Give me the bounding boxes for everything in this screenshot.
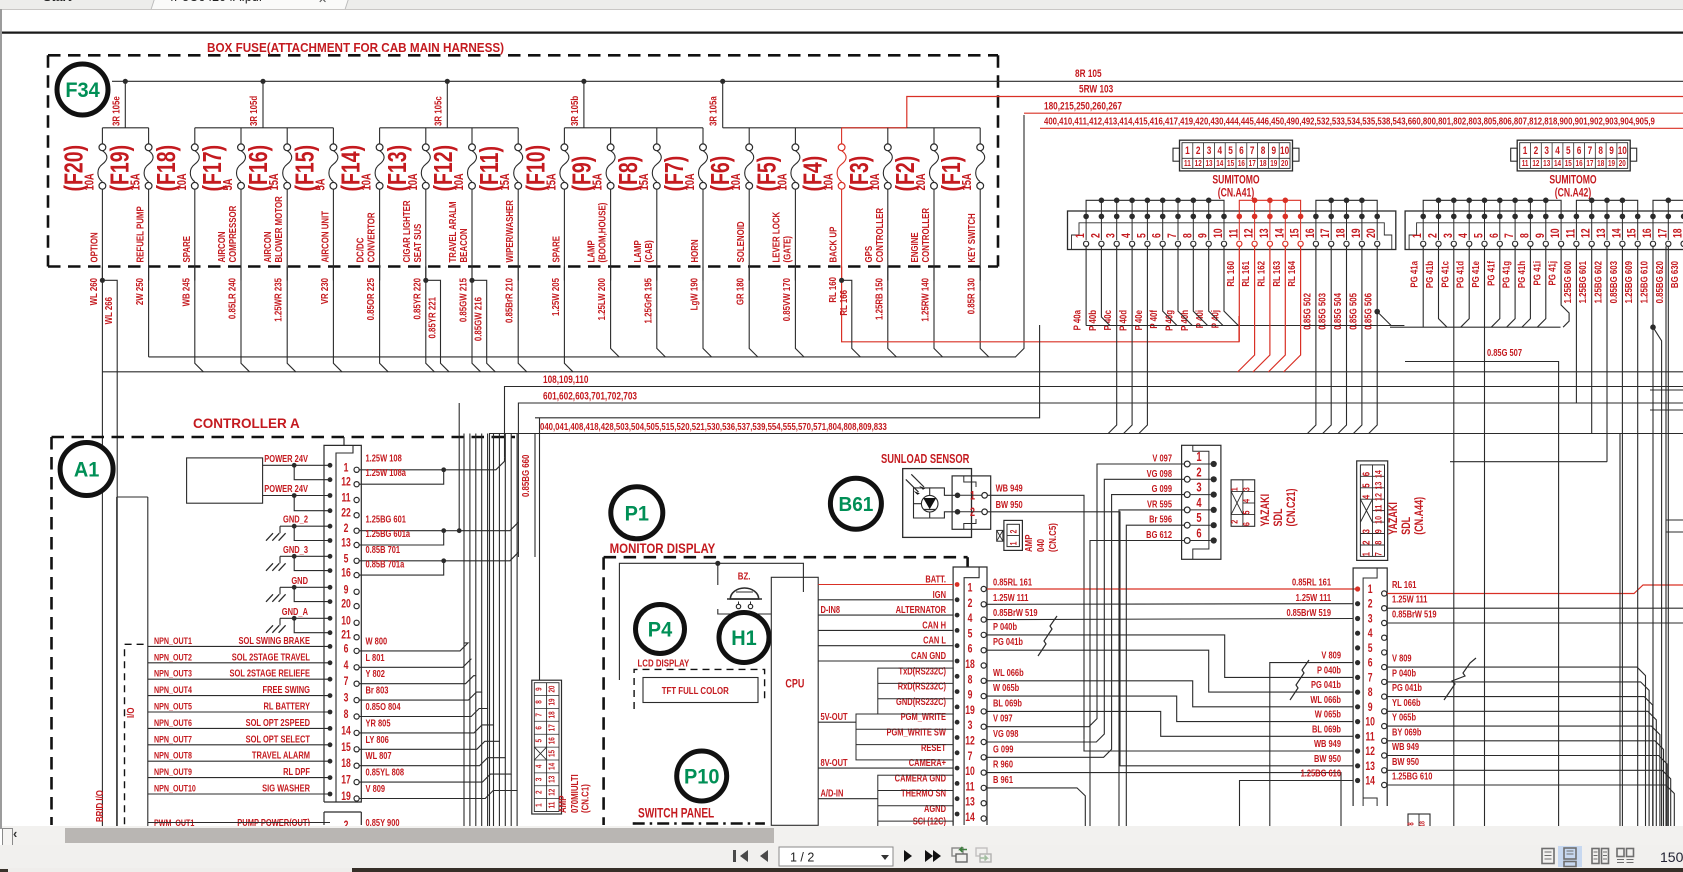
6pin pin 4 VR 595 bbox=[1184, 497, 1217, 513]
svg-text:1.25BG 610: 1.25BG 610 bbox=[1638, 261, 1649, 303]
svg-text:3: 3 bbox=[1544, 145, 1549, 157]
svg-text:14: 14 bbox=[1611, 228, 1623, 238]
svg-text:20: 20 bbox=[341, 599, 351, 611]
svg-text:13: 13 bbox=[341, 537, 351, 549]
svg-text:I/O: I/O bbox=[125, 708, 136, 718]
svg-text:13: 13 bbox=[1543, 158, 1550, 168]
6pin pin 5 Br 596 bbox=[1184, 512, 1217, 528]
controller pin 9 bbox=[328, 584, 360, 596]
svg-text:0.85YR 220: 0.85YR 220 bbox=[411, 278, 422, 320]
svg-text:10: 10 bbox=[1213, 228, 1225, 238]
CN.A41 pin 13 bbox=[1259, 214, 1273, 247]
wire Y 065b right bbox=[1387, 726, 1660, 830]
svg-text:0.85B 701: 0.85B 701 bbox=[366, 544, 401, 555]
svg-text:1.25RW 140: 1.25RW 140 bbox=[919, 278, 930, 322]
svg-text:1: 1 bbox=[1009, 541, 1019, 545]
svg-text:5A: 5A bbox=[222, 179, 236, 191]
14pin pin 1 bbox=[1355, 584, 1387, 596]
wire P 40i bbox=[1209, 246, 1223, 325]
6pin pin 6 BG 612 bbox=[1184, 527, 1217, 543]
connector B61 bbox=[830, 478, 881, 529]
wire right stub 3 bbox=[1666, 519, 1683, 521]
CN.A42 pin 8 bbox=[1519, 214, 1533, 247]
twisted pair marker 2 bbox=[1290, 660, 1309, 700]
svg-text:17: 17 bbox=[1320, 228, 1332, 238]
wire WB 949 right bbox=[1387, 756, 1667, 831]
14pin pin 11 bbox=[1355, 731, 1387, 743]
svg-text:6: 6 bbox=[1577, 145, 1582, 157]
svg-text:21: 21 bbox=[341, 630, 351, 642]
svg-text:1: 1 bbox=[1185, 145, 1190, 157]
svg-text:1.25W 108: 1.25W 108 bbox=[366, 452, 402, 463]
svg-text:PWM_OUT1: PWM_OUT1 bbox=[154, 817, 195, 826]
svg-text:400,410,411,412,413,414,415,41: 400,410,411,412,413,414,415,416,417,419,… bbox=[1044, 116, 1655, 127]
svg-text:P4: P4 bbox=[648, 618, 673, 642]
svg-text:SPARE: SPARE bbox=[550, 236, 561, 263]
CN.A42 pin 16 bbox=[1642, 214, 1656, 247]
wire L 801 bbox=[359, 434, 471, 668]
page top border bbox=[2, 31, 1683, 33]
svg-text:0.85LR 240: 0.85LR 240 bbox=[226, 278, 237, 319]
wire V 809 bbox=[1270, 663, 1353, 826]
svg-text:NPN_OUT5: NPN_OUT5 bbox=[154, 700, 192, 711]
wire 1.25W 108 bbox=[359, 469, 444, 471]
left window border bbox=[0, 9, 2, 829]
wire 0.85GW 215 bbox=[472, 267, 481, 372]
CN.A41 pin 16 bbox=[1305, 214, 1319, 247]
CN.A41 pin 11 bbox=[1228, 214, 1242, 247]
svg-text:CPU: CPU bbox=[785, 678, 804, 692]
svg-text:10: 10 bbox=[341, 615, 351, 627]
svg-text:15A: 15A bbox=[591, 173, 605, 190]
svg-text:11: 11 bbox=[546, 802, 556, 809]
svg-text:1.25BG 601a: 1.25BG 601a bbox=[366, 528, 411, 539]
svg-text:0.85BG 603: 0.85BG 603 bbox=[1608, 261, 1619, 303]
svg-text:040: 040 bbox=[1035, 539, 1046, 552]
connector P1 bbox=[611, 487, 663, 539]
svg-text:17: 17 bbox=[341, 775, 351, 787]
wire P 40g bbox=[1178, 246, 1192, 325]
wire 0.85G 507 line bbox=[1405, 362, 1559, 831]
wire right stub 2 bbox=[1650, 409, 1683, 411]
svg-text:WL 066b: WL 066b bbox=[1310, 694, 1341, 705]
svg-text:1: 1 bbox=[968, 582, 973, 594]
svg-text:2: 2 bbox=[533, 790, 543, 794]
svg-text:8: 8 bbox=[1372, 540, 1383, 544]
svg-text:2: 2 bbox=[1009, 529, 1019, 533]
svg-text:4: 4 bbox=[968, 613, 973, 625]
svg-text:SUMITOMO: SUMITOMO bbox=[1212, 174, 1259, 186]
svg-text:LY 806: LY 806 bbox=[366, 734, 389, 745]
wire red feed to fuse F4 bbox=[842, 127, 907, 129]
svg-text:0.85OR 225: 0.85OR 225 bbox=[365, 278, 376, 320]
wire 0.85RL 161 (red row) bbox=[987, 588, 1358, 590]
svg-text:AIRCON UNIT: AIRCON UNIT bbox=[319, 211, 330, 263]
svg-text:5RW 103: 5RW 103 bbox=[1079, 83, 1114, 95]
svg-text:10: 10 bbox=[1550, 228, 1562, 238]
svg-text:10A: 10A bbox=[407, 173, 421, 190]
svg-text:22: 22 bbox=[341, 508, 351, 520]
ground bbox=[279, 618, 281, 625]
wire rail A41 11-15 bbox=[1239, 198, 1300, 215]
svg-text:9: 9 bbox=[533, 687, 543, 691]
svg-text:P 40a: P 40a bbox=[1072, 309, 1083, 330]
svg-text:MONITOR DISPLAY: MONITOR DISPLAY bbox=[610, 541, 716, 556]
svg-text:TRAVEL ALARM: TRAVEL ALARM bbox=[252, 750, 310, 761]
CN.A41 pin 8 bbox=[1182, 214, 1196, 247]
svg-text:5: 5 bbox=[968, 628, 973, 640]
svg-text:3: 3 bbox=[1240, 487, 1251, 491]
wire WB 949 bbox=[987, 495, 1084, 740]
svg-text:RESET: RESET bbox=[921, 742, 946, 753]
svg-text:11: 11 bbox=[1228, 229, 1240, 238]
controller pin 4 NPN_OUT2 bbox=[148, 651, 359, 672]
wire bus 400-905 bbox=[1040, 127, 1683, 129]
wire far right v2 bbox=[1665, 246, 1667, 830]
svg-text:19: 19 bbox=[1270, 158, 1277, 168]
fuse F20 10A bbox=[59, 128, 107, 281]
monitor pin 1 BATT. bbox=[818, 573, 986, 594]
svg-text:PG 41c: PG 41c bbox=[1439, 261, 1450, 288]
svg-text:8: 8 bbox=[1598, 145, 1603, 157]
svg-text:16: 16 bbox=[1576, 158, 1583, 168]
svg-text:2: 2 bbox=[970, 506, 975, 520]
svg-text:V 809: V 809 bbox=[1392, 653, 1412, 664]
svg-text:AGND: AGND bbox=[924, 803, 946, 814]
svg-text:POWER 24V: POWER 24V bbox=[264, 483, 308, 494]
svg-text:0.85BrR 210: 0.85BrR 210 bbox=[504, 278, 515, 323]
svg-text:11: 11 bbox=[1522, 158, 1529, 168]
svg-text:3: 3 bbox=[1368, 613, 1373, 625]
svg-text:18: 18 bbox=[1259, 158, 1266, 168]
controller connector strip bbox=[324, 437, 361, 802]
wire P 40e bbox=[1139, 246, 1148, 433]
svg-text:A1: A1 bbox=[74, 458, 99, 482]
svg-text:6: 6 bbox=[1239, 145, 1244, 157]
wire bus 180,215,250,260,267 bbox=[1024, 112, 1683, 114]
svg-text:3: 3 bbox=[533, 778, 543, 782]
fuse F5 10A bbox=[752, 128, 800, 281]
controller pin 13 bbox=[328, 537, 360, 549]
svg-text:NPN_OUT3: NPN_OUT3 bbox=[154, 668, 192, 679]
svg-text:13: 13 bbox=[1259, 228, 1271, 238]
svg-text:1: 1 bbox=[1368, 584, 1373, 596]
svg-text:PG 041b: PG 041b bbox=[993, 636, 1023, 647]
wire Br 803 bbox=[359, 434, 482, 701]
wire 1.25BG 610 right bbox=[1387, 785, 1674, 830]
svg-text:THERMO SN: THERMO SN bbox=[901, 788, 946, 799]
svg-text:0.85G 505: 0.85G 505 bbox=[1347, 293, 1358, 330]
connector H1 bbox=[719, 613, 769, 663]
svg-text:17: 17 bbox=[1249, 158, 1256, 168]
wire PG 041b bbox=[987, 650, 1353, 692]
14pin pin 2 bbox=[1355, 599, 1387, 611]
svg-text:0.85BG 620: 0.85BG 620 bbox=[1654, 261, 1665, 303]
CN.A41 pin 3 bbox=[1106, 214, 1120, 247]
svg-text:14: 14 bbox=[1372, 470, 1383, 478]
6pin pin 3 G 099 bbox=[1184, 481, 1217, 497]
nav corner button bbox=[2, 828, 13, 854]
svg-text:PG 41j: PG 41j bbox=[1547, 261, 1558, 285]
wire rail A42 16-20 bbox=[1653, 200, 1683, 214]
wire 1.25BG 601 bbox=[359, 530, 444, 532]
wire RL 162 down bbox=[1253, 246, 1270, 372]
CN.A42 pin 10 bbox=[1550, 214, 1564, 247]
svg-text:PG 41i: PG 41i bbox=[1531, 261, 1542, 285]
wire WL 266 branch bbox=[102, 280, 117, 826]
svg-text:CAMERA GND: CAMERA GND bbox=[895, 772, 946, 783]
wire G 099 bbox=[987, 495, 1184, 758]
svg-text:1.25LW 200: 1.25LW 200 bbox=[596, 278, 607, 320]
svg-text:OPTION: OPTION bbox=[88, 232, 99, 262]
svg-text:SOL OPT SELECT: SOL OPT SELECT bbox=[246, 733, 311, 744]
wire right stub 4 bbox=[1666, 531, 1683, 533]
controller pin 1 bbox=[328, 462, 360, 474]
wire collector A bbox=[149, 115, 1024, 357]
wire 0.85GW 216 branch bbox=[469, 278, 474, 283]
svg-text:10A: 10A bbox=[684, 173, 698, 190]
svg-text:LAMP: LAMP bbox=[632, 240, 643, 262]
svg-text:P 040b: P 040b bbox=[1317, 664, 1342, 675]
svg-text:11: 11 bbox=[1565, 229, 1577, 238]
wire bus 040-833 bbox=[490, 434, 1683, 827]
fuse F8 15A bbox=[613, 128, 661, 281]
svg-text:4: 4 bbox=[533, 764, 543, 768]
svg-text:YL 066b: YL 066b bbox=[1392, 697, 1421, 708]
svg-text:F34: F34 bbox=[65, 79, 100, 103]
wire 8R 105 bus bbox=[112, 80, 1683, 82]
wire branch bbox=[294, 618, 330, 632]
CN.A42 pin 15 bbox=[1627, 214, 1641, 247]
monitor pin 19 GND(RS232C) bbox=[896, 696, 986, 717]
wire 1.25W 108a bbox=[359, 472, 444, 484]
svg-text:SUNLOAD SENSOR: SUNLOAD SENSOR bbox=[881, 453, 969, 467]
svg-text:14: 14 bbox=[341, 725, 351, 737]
CN.A42 pin 1 bbox=[1412, 214, 1426, 247]
svg-text:10: 10 bbox=[1280, 145, 1289, 157]
wire BW 950 bbox=[987, 512, 1120, 755]
svg-text:11: 11 bbox=[1366, 731, 1375, 743]
svg-text:5: 5 bbox=[1566, 145, 1571, 157]
wire 0.85G 506 bbox=[1376, 246, 1378, 311]
controller pin 6 NPN_OUT1 bbox=[148, 635, 359, 656]
monitor inner box bbox=[619, 563, 803, 680]
svg-text:NPN_OUT2: NPN_OUT2 bbox=[154, 651, 192, 662]
svg-text:4: 4 bbox=[1240, 499, 1251, 503]
svg-text:PGM_WRITE: PGM_WRITE bbox=[901, 711, 946, 722]
wire Y 802 bbox=[359, 434, 476, 684]
svg-text:GR 180: GR 180 bbox=[735, 278, 746, 305]
svg-text:7: 7 bbox=[533, 713, 543, 717]
svg-text:(CN.A41): (CN.A41) bbox=[1218, 187, 1254, 199]
controller A dashed box bbox=[52, 437, 516, 825]
wire bbox=[263, 495, 330, 497]
svg-text:13: 13 bbox=[1205, 158, 1212, 168]
svg-text:GPS: GPS bbox=[863, 246, 874, 263]
svg-text:PGM_WRITE SW: PGM_WRITE SW bbox=[886, 726, 946, 737]
svg-text:CONTROLLER A: CONTROLLER A bbox=[193, 416, 300, 431]
svg-text:GND_2: GND_2 bbox=[283, 514, 308, 525]
svg-text:LgW 190: LgW 190 bbox=[688, 278, 699, 310]
wire GR 180 bbox=[749, 267, 758, 357]
svg-text:5: 5 bbox=[1368, 643, 1373, 655]
CN.A41 pin 12 bbox=[1244, 214, 1258, 247]
svg-text:BLOWER MOTOR: BLOWER MOTOR bbox=[273, 196, 284, 263]
svg-text:7: 7 bbox=[1368, 672, 1373, 684]
svg-text:NPN_OUT9: NPN_OUT9 bbox=[154, 766, 192, 777]
svg-text:2W 250: 2W 250 bbox=[134, 278, 145, 305]
svg-text:BATT.: BATT. bbox=[925, 573, 946, 584]
svg-text:1.25BG 610: 1.25BG 610 bbox=[1301, 767, 1341, 778]
svg-text:11: 11 bbox=[1184, 158, 1191, 168]
svg-text:AMP: AMP bbox=[1023, 535, 1034, 552]
svg-text:12: 12 bbox=[546, 789, 556, 796]
svg-text:1.25BG 610: 1.25BG 610 bbox=[1392, 770, 1432, 781]
svg-text:1.25RB 150: 1.25RB 150 bbox=[873, 278, 884, 320]
svg-text:BW 950: BW 950 bbox=[996, 499, 1023, 510]
svg-text:12: 12 bbox=[1581, 228, 1593, 238]
svg-text:8: 8 bbox=[1182, 233, 1194, 238]
wire P 40f bbox=[1163, 246, 1177, 325]
controller pin 15 NPN_OUT7 bbox=[148, 733, 359, 754]
svg-text:16: 16 bbox=[1238, 158, 1245, 168]
svg-text:13: 13 bbox=[546, 776, 556, 783]
wire rail A41 1-10 bbox=[1086, 198, 1224, 215]
bottom dark strip bbox=[0, 868, 1683, 872]
svg-text:15: 15 bbox=[1227, 158, 1234, 168]
controller pin 20 bbox=[328, 599, 360, 611]
CN.A41 pin 2 bbox=[1090, 214, 1104, 247]
wire PG 41e bbox=[1484, 246, 1486, 830]
fuse F7 10A bbox=[659, 128, 707, 281]
CN.A42 pin 6 bbox=[1489, 214, 1503, 247]
svg-text:15A: 15A bbox=[638, 173, 652, 190]
svg-text:TxD(RS232C): TxD(RS232C) bbox=[899, 665, 947, 676]
svg-text:KEY SWITCH: KEY SWITCH bbox=[966, 213, 977, 262]
svg-text:B61: B61 bbox=[838, 493, 873, 516]
svg-text:3: 3 bbox=[1207, 145, 1212, 157]
wire PG 041b right bbox=[1387, 697, 1653, 830]
controller pin 8 NPN_OUT5 bbox=[148, 700, 359, 721]
svg-text:14: 14 bbox=[1365, 775, 1375, 787]
svg-text:VR 230: VR 230 bbox=[319, 278, 330, 304]
wire fuse group 3R 105d bbox=[195, 79, 334, 128]
svg-text:13: 13 bbox=[965, 797, 975, 809]
photodiode D1 bbox=[906, 474, 938, 512]
power supply box bbox=[187, 458, 263, 503]
svg-text:SOL 2STAGE TRAVEL: SOL 2STAGE TRAVEL bbox=[232, 651, 311, 662]
wire BL 069b bbox=[987, 711, 1353, 736]
svg-text:11: 11 bbox=[1372, 504, 1383, 512]
svg-text:150: 150 bbox=[1660, 849, 1683, 865]
monitor pin 3 PGM_WRITE bbox=[818, 711, 986, 732]
wire 0.85BG 620 bbox=[1667, 246, 1669, 830]
wire RL 160 down bbox=[1238, 246, 1240, 341]
wire bbox=[280, 555, 330, 557]
svg-text:W 065b: W 065b bbox=[993, 682, 1020, 693]
switch panel dash-dot box bbox=[633, 822, 765, 825]
svg-text:9: 9 bbox=[1272, 145, 1277, 157]
svg-text:ALTERNATOR: ALTERNATOR bbox=[896, 604, 947, 615]
monitor pin 8 TxD(RS232C) bbox=[899, 665, 987, 686]
wire RL 166 branch bbox=[842, 280, 861, 357]
svg-text:12: 12 bbox=[1372, 493, 1383, 501]
svg-text:7: 7 bbox=[1250, 145, 1255, 157]
svg-text:4: 4 bbox=[1196, 497, 1202, 511]
svg-text:SDL: SDL bbox=[1400, 516, 1414, 534]
svg-text:COMPRESSOR: COMPRESSOR bbox=[227, 205, 238, 262]
svg-text:YAZAKI: YAZAKI bbox=[1259, 494, 1273, 527]
ground bbox=[279, 556, 281, 563]
wire W 800 bbox=[359, 434, 468, 651]
svg-text:WL 260: WL 260 bbox=[88, 278, 99, 305]
svg-text:PG 041b: PG 041b bbox=[1392, 682, 1422, 693]
fuse F4 10A bbox=[798, 128, 846, 281]
svg-text:RL 164: RL 164 bbox=[1286, 260, 1297, 286]
CN.A42 pin 14 bbox=[1611, 214, 1625, 247]
box fuse dashed border bbox=[48, 55, 998, 266]
svg-text:1.25W 111: 1.25W 111 bbox=[993, 592, 1028, 603]
svg-text:0.85RL 161: 0.85RL 161 bbox=[1292, 576, 1331, 587]
svg-text:CIGAR LIGHTER: CIGAR LIGHTER bbox=[401, 200, 412, 262]
svg-text:14: 14 bbox=[1216, 158, 1224, 168]
wire rail A42 1-10 bbox=[1423, 198, 1561, 215]
svg-text:16: 16 bbox=[546, 737, 556, 744]
wire WB 949 to block bbox=[1084, 740, 1353, 751]
svg-text:10A: 10A bbox=[453, 173, 467, 190]
CN.A42 pin 9 bbox=[1535, 214, 1549, 247]
wire bus 461 bbox=[1450, 461, 1607, 463]
connector SUMITOMO (CN.A41) symbol bbox=[1173, 140, 1299, 171]
wire RL 163 down bbox=[1268, 246, 1285, 372]
wire PG 41a bbox=[1422, 246, 1424, 327]
svg-text:LEVER LOCK: LEVER LOCK bbox=[770, 212, 781, 263]
svg-text:RL BATTERY: RL BATTERY bbox=[264, 700, 311, 711]
wire 0.85B 701a bbox=[359, 563, 444, 575]
svg-text:9: 9 bbox=[344, 584, 349, 596]
wire 0.85O 804 bbox=[359, 434, 487, 717]
svg-text:6: 6 bbox=[1360, 472, 1371, 476]
svg-text:4: 4 bbox=[1121, 233, 1133, 238]
svg-text:4: 4 bbox=[1360, 494, 1371, 499]
wire V 809 right bbox=[1387, 667, 1645, 830]
svg-text:7: 7 bbox=[344, 676, 349, 688]
wire photodiode to pins bbox=[914, 488, 956, 518]
svg-text:10A: 10A bbox=[360, 173, 374, 190]
svg-text:BG 612: BG 612 bbox=[1146, 529, 1172, 540]
svg-text:V 809: V 809 bbox=[366, 783, 386, 794]
fuse F13 10A bbox=[382, 128, 430, 281]
connector P10 bbox=[677, 751, 727, 801]
svg-text:Br 803: Br 803 bbox=[366, 685, 389, 696]
svg-text:P10: P10 bbox=[684, 765, 719, 789]
svg-text:18: 18 bbox=[1597, 158, 1604, 168]
svg-text:11: 11 bbox=[341, 492, 350, 504]
wire collector D bbox=[1390, 326, 1561, 328]
svg-text:15A: 15A bbox=[129, 173, 143, 190]
svg-text:1.25BG 602: 1.25BG 602 bbox=[1592, 261, 1603, 303]
controller pin 14 NPN_OUT6 bbox=[148, 717, 359, 738]
wire BW 950 right bbox=[1387, 770, 1671, 830]
svg-text:20: 20 bbox=[1281, 158, 1288, 168]
fuse F3 10A bbox=[844, 128, 892, 281]
svg-text:19: 19 bbox=[965, 705, 975, 717]
monitor pin 7 RESET bbox=[921, 742, 986, 763]
toolbar icons bbox=[0, 845, 1683, 872]
wire P 40h bbox=[1193, 246, 1207, 325]
svg-text:P 040b: P 040b bbox=[993, 621, 1018, 632]
svg-text:10A: 10A bbox=[869, 173, 883, 190]
